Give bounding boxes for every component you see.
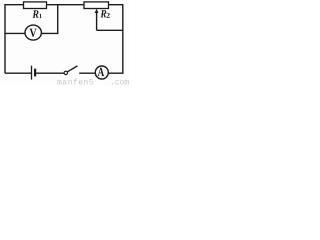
- voltmeter letter V: [29, 29, 36, 37]
- label R1 (italic R): [32, 10, 38, 17]
- voltmeter circle: [25, 25, 41, 40]
- resistor R2 (rheostat body): [84, 2, 109, 9]
- wire: top-left segment to R1: [4, 4, 24, 6]
- wire: voltmeter branch right: [41, 32, 59, 34]
- wire: top-right segment R2 to corner: [109, 4, 124, 6]
- wire: voltmeter branch left: [4, 32, 26, 34]
- wire: slider horizontal to right vertical: [97, 29, 124, 31]
- wire: bottom-left segment to battery: [5, 72, 31, 74]
- rheostat slider arrow: [95, 9, 99, 13]
- wire: left vertical: [4, 5, 6, 74]
- wire: switch right contact to ammeter: [79, 72, 95, 74]
- switch pivot circle: [64, 71, 67, 74]
- label R1 subscript 1: [39, 14, 41, 18]
- wire: ammeter to bottom-right corner: [108, 72, 123, 74]
- ammeter circle: [95, 66, 108, 79]
- battery short thick plate (-): [34, 69, 36, 77]
- wire: top middle segment R1 to R2: [47, 4, 85, 6]
- switch lever: [67, 66, 77, 72]
- label R2 (italic R): [100, 10, 106, 17]
- svg-text:manfen5: manfen5: [57, 79, 94, 86]
- battery long plate (+): [31, 66, 33, 80]
- svg-text:.com: .com: [110, 79, 129, 86]
- wire: right vertical: [122, 5, 124, 74]
- ammeter letter A: [98, 68, 105, 76]
- label R2 subscript 2: [107, 13, 110, 18]
- wire: slider stem vertical: [96, 12, 98, 30]
- resistor R1: [24, 2, 47, 9]
- wire: battery to switch: [36, 72, 64, 74]
- wire: voltmeter branch vertical up to top wire: [57, 5, 59, 34]
